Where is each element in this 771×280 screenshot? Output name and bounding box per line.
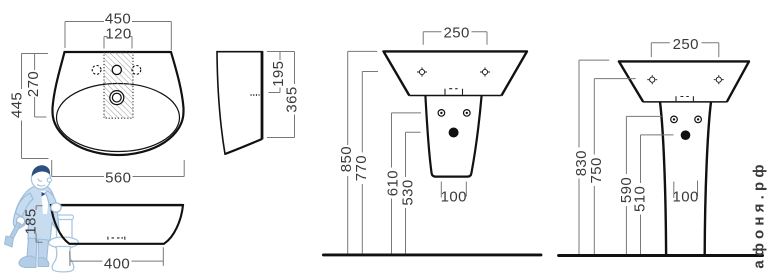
plumber right hand (over basin edge) xyxy=(51,203,61,212)
right pedestal left small hole xyxy=(671,116,678,123)
top-view hatched tap deck area xyxy=(104,53,133,119)
top-view inner bowl ellipse xyxy=(57,84,180,152)
toilet tank lid xyxy=(55,215,74,220)
side-view hidden drain mark (dotted) xyxy=(251,94,260,96)
right pedestal large mounting hole xyxy=(681,130,691,140)
dimension 365 line xyxy=(267,52,295,138)
svg-text:афоня.рф: афоня.рф xyxy=(751,160,768,268)
right figure group xyxy=(559,61,763,255)
side view dimensions group xyxy=(267,52,295,138)
dimension 560 line xyxy=(52,160,185,177)
shared top tick for 270/445 xyxy=(22,53,49,55)
toilet bowl seat xyxy=(49,237,79,248)
right basin outline (top and sides) xyxy=(619,61,749,102)
dimension 770 line xyxy=(362,72,378,254)
right floor line xyxy=(559,254,763,257)
hand of plumber over front-view line xyxy=(51,203,61,212)
right overflow dashed mark xyxy=(676,96,693,101)
plumber shirt xyxy=(41,191,50,214)
dimension 530 line xyxy=(406,132,421,253)
middle basin outline (top and sides) xyxy=(384,51,528,95)
middle pedestal right small hole xyxy=(464,110,471,117)
top-view drain outer circle xyxy=(110,91,124,105)
side view group xyxy=(217,51,262,154)
svg-text:400: 400 xyxy=(104,255,130,272)
middle pedestal left small hole xyxy=(438,110,445,117)
svg-text:770: 770 xyxy=(353,155,370,181)
plumber head xyxy=(31,169,50,190)
top-view drain inner circle xyxy=(112,93,121,102)
front-view hidden overflow mark (dotted) xyxy=(108,237,125,240)
dimension 830 line xyxy=(579,60,609,254)
dimension 450 line xyxy=(65,22,171,51)
side-view basin profile outline xyxy=(217,52,262,154)
dimension 120 line xyxy=(104,37,132,49)
svg-text:270: 270 xyxy=(25,71,42,97)
middle floor line xyxy=(323,253,541,256)
right dimensions group xyxy=(579,43,719,254)
plumber right sleeve xyxy=(45,191,57,207)
dimension 590 line xyxy=(626,116,661,254)
plumber left boot xyxy=(19,256,36,268)
dimension 100 ticks (middle) xyxy=(441,182,466,198)
dimension 100 ticks (right) xyxy=(674,181,698,199)
svg-text:250: 250 xyxy=(673,36,699,53)
svg-text:250: 250 xyxy=(443,24,469,41)
dimension 400 line xyxy=(70,247,163,266)
middle overflow dashed mark xyxy=(445,89,463,95)
toilet tank xyxy=(57,217,73,241)
toilet base xyxy=(52,247,74,272)
dimension 195 line xyxy=(269,52,281,93)
plumber ear xyxy=(47,178,51,182)
svg-text:750: 750 xyxy=(588,157,605,183)
top-view right optional tap hole (dashed) xyxy=(132,66,141,75)
svg-text:100: 100 xyxy=(672,189,698,206)
top view dimensions group xyxy=(22,22,185,177)
plumber right boot xyxy=(38,258,49,267)
front-view thick top edge xyxy=(51,204,183,206)
plumber watermark group xyxy=(5,165,79,272)
right left fixing screw xyxy=(647,75,657,84)
svg-text:120: 120 xyxy=(105,26,131,43)
front view dimensions group xyxy=(36,206,163,266)
dimension 610 line xyxy=(392,113,422,254)
side-view thick rear (right) edge xyxy=(261,51,264,139)
top-view left optional tap hole (dashed) xyxy=(92,66,101,75)
middle pedestal large mounting hole xyxy=(449,128,459,138)
plumber bow tie xyxy=(42,192,50,197)
top-view tap deck dotted border xyxy=(104,53,133,119)
middle dimensions group xyxy=(348,32,487,254)
front-view basin outline xyxy=(51,205,183,244)
svg-text:530: 530 xyxy=(400,179,417,205)
middle right fixing screw xyxy=(480,67,490,76)
dimension 250 (right) xyxy=(651,43,719,57)
plumber face features xyxy=(38,179,46,186)
right full pedestal left side xyxy=(660,102,666,255)
middle semi-pedestal outline xyxy=(425,96,481,177)
dimension 750 line xyxy=(594,79,635,254)
plumber jacket body xyxy=(13,185,59,241)
top-view basin outer outline xyxy=(53,52,184,155)
right full pedestal right side xyxy=(705,102,711,255)
right basin bottom edge xyxy=(643,101,727,103)
plumber trousers xyxy=(27,238,37,262)
dimension 185 line xyxy=(36,206,43,242)
svg-text:510: 510 xyxy=(632,186,649,212)
dimension 270 line xyxy=(35,54,47,118)
dimension 850 line xyxy=(348,51,378,253)
svg-text:365: 365 xyxy=(283,86,300,112)
dimension 250 (middle) xyxy=(423,32,487,45)
pipe wrench head xyxy=(5,236,14,247)
svg-text:445: 445 xyxy=(9,92,26,118)
plumber hair xyxy=(32,165,50,176)
dimension 445 line xyxy=(22,54,49,159)
svg-text:185: 185 xyxy=(23,208,40,234)
top view group xyxy=(53,52,184,155)
pipe wrench xyxy=(9,222,22,241)
shared top tick for 195/365 xyxy=(267,51,295,53)
dimension 510 line xyxy=(641,135,674,254)
plumber left hand xyxy=(16,217,24,225)
middle basin bottom edge xyxy=(409,95,501,97)
svg-text:560: 560 xyxy=(105,170,131,187)
plumber right trouser leg xyxy=(38,239,49,262)
middle left fixing screw xyxy=(417,67,427,76)
middle figure group xyxy=(323,51,541,255)
svg-text:195: 195 xyxy=(270,61,287,87)
top-view tap hole xyxy=(112,65,121,74)
right right fixing screw xyxy=(714,75,724,84)
svg-text:100: 100 xyxy=(441,189,467,206)
right pedestal right small hole xyxy=(695,116,702,123)
side-view thick bottom curve xyxy=(225,139,262,154)
plumber left sleeve xyxy=(16,193,34,217)
front view group xyxy=(51,205,183,244)
